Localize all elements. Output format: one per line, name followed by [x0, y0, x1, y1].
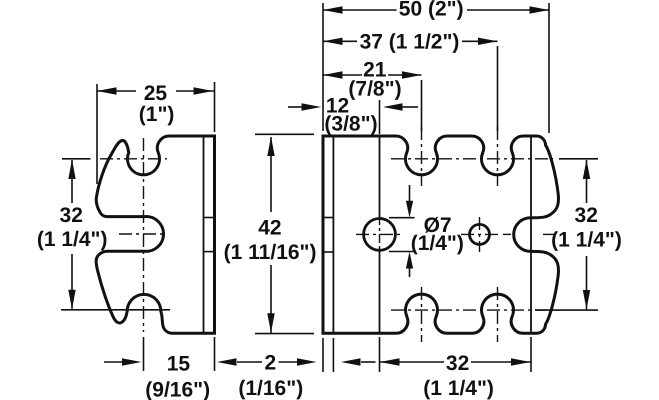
svg-text:37 (1 1/2"): 37 (1 1/2")	[360, 31, 460, 54]
dimension 12 label	[326, 95, 349, 118]
hole dia bottom tangent line	[389, 251, 415, 253]
right notch center line right stub	[543, 233, 554, 235]
dimension 15 left outside arrow	[104, 358, 142, 365]
svg-text:(9/16"): (9/16")	[145, 379, 210, 400]
bottom scallop horizontal center line	[391, 309, 546, 311]
svg-text:(1 1/4"): (1 1/4")	[423, 377, 494, 400]
extension line y=158.8 right (32 dim)	[559, 158, 598, 160]
dimension 12 right outside arrow	[383, 103, 418, 110]
dimension 42 label	[258, 217, 281, 240]
dimension 37 label	[360, 31, 460, 54]
hole 1 (O7)	[364, 219, 396, 251]
extension line y=310.1 right (32 dim)	[535, 309, 598, 311]
right part flange strip tick upper	[323, 217, 333, 219]
extension line x=323 (top)	[322, 3, 324, 131]
svg-text:42: 42	[258, 217, 281, 240]
dimension 15 right outside arrow	[217, 358, 237, 365]
dimension 32-bottom right arrow	[511, 358, 531, 365]
svg-text:(1/4"): (1/4")	[411, 232, 464, 255]
left part back-plate tick lower	[204, 251, 215, 253]
dimension 32-bottom label inches	[423, 377, 494, 400]
hole dia label	[424, 214, 452, 237]
scallop center line vertical 1	[421, 127, 423, 342]
dimension 32-right bottom arrow	[583, 290, 590, 310]
hole dia bottom arrow	[406, 252, 413, 278]
hole 2 horizontal center line	[461, 233, 500, 235]
dimension 42 top arrow	[267, 137, 274, 157]
svg-text:15: 15	[167, 353, 191, 376]
extension line x=323 (bottom)	[322, 338, 324, 372]
hole 1 vertical center line	[379, 216, 381, 253]
right notch center line stub	[503, 233, 514, 235]
dimension 12 left outside arrow	[288, 103, 321, 110]
hole dia top arrow	[406, 185, 413, 218]
extension line x=421.5 (21 dim)	[421, 80, 423, 131]
hole 1 horizontal center line	[356, 233, 402, 235]
hole 2 vertical center line	[479, 217, 481, 252]
dimension 32-left label	[60, 204, 83, 227]
dimension 21 left arrow	[323, 71, 343, 78]
dimension 2 line left	[237, 361, 262, 363]
dimension 25 label inches	[139, 103, 175, 126]
svg-text:(1 1/4"): (1 1/4")	[37, 228, 108, 251]
right part outline (front view of scalloped plate)	[323, 136, 559, 333]
extension line x=97 (25 dim)	[96, 84, 98, 184]
right part bend line (12mm fold)	[379, 136, 381, 333]
dimension 32-bottom label	[446, 352, 469, 375]
dimension 37 right arrow	[478, 38, 498, 45]
extension line x=214.5 (25 dim)	[214, 82, 216, 132]
scallop center line vertical 2	[497, 127, 499, 342]
extension line x=379.5 (bottom)	[379, 337, 381, 372]
dimension 32-bottom left arrow	[380, 358, 400, 365]
svg-text:32: 32	[60, 204, 83, 227]
dimension 2 label inches	[238, 377, 303, 400]
dimension 32-left top arrow	[68, 160, 75, 180]
dimension 50 line	[323, 9, 549, 11]
dimension 25 right arrow	[194, 87, 214, 94]
left part outline (side view of spring clip)	[96, 136, 214, 333]
extension line y=333.6 (42 dim)	[255, 333, 314, 335]
hole dia top tangent line	[389, 217, 415, 219]
dimension 25 left arrow	[97, 87, 117, 94]
svg-text:(1/16"): (1/16")	[238, 377, 303, 400]
extension line y=134 (42 dim)	[255, 133, 314, 135]
extension line x=214.5 (bottom)	[214, 337, 216, 371]
dimension 50 left arrow	[323, 6, 343, 13]
dimension 32-right top arrow	[583, 160, 590, 180]
svg-text:32: 32	[446, 352, 469, 375]
top scallop horizontal center line	[391, 158, 553, 160]
dimension 21 right arrow	[402, 71, 422, 78]
dimension 32-bottom line	[380, 361, 532, 363]
left part middle-finger center line	[119, 233, 166, 235]
dimension 15 label	[167, 353, 191, 376]
dimension 21 label inches	[348, 78, 401, 101]
hole 2	[470, 224, 490, 244]
dimension 37 left arrow	[323, 38, 343, 45]
dimension 2 label	[265, 352, 277, 375]
extension line x=333.4 (bottom)	[332, 338, 334, 372]
dimension 42 line	[270, 137, 272, 333]
dimension 32-right label inches	[551, 229, 622, 252]
right part flange strip tick lower	[323, 251, 333, 253]
dimension 32-right label	[575, 204, 598, 227]
dimension 32-left bottom arrow	[68, 290, 75, 310]
dimension 2 left-pointing arrow	[341, 358, 376, 365]
left part vertical center line	[143, 138, 145, 332]
hole dia label inches	[411, 232, 464, 255]
dimension 15 label inches	[145, 379, 210, 400]
dimension 32-left line	[71, 160, 73, 309]
extension line x=379.5 (12 dim)	[379, 100, 381, 134]
svg-text:(1 11/16"): (1 11/16")	[224, 241, 317, 264]
extension line x=531 (bottom)	[530, 337, 532, 372]
right part flange strip line	[332, 136, 334, 333]
extension line x=143.5 (bottom)	[143, 337, 145, 371]
extension line y=309.8 left (32 dim)	[61, 309, 170, 311]
dimension 50 right arrow	[530, 6, 550, 13]
left part back-plate tick upper	[204, 217, 215, 219]
extension line y=158.8 left (32 dim)	[62, 158, 91, 160]
extension line x=497.5 (37 dim)	[497, 46, 499, 131]
dimension 21 label	[363, 59, 387, 82]
extension line x=549 (top)	[548, 3, 550, 133]
left part top-notch center line	[100, 158, 167, 160]
dimension 21 line	[323, 74, 422, 76]
svg-text:32: 32	[575, 204, 598, 227]
svg-text:(3/8"): (3/8")	[324, 113, 377, 136]
dimension 25 line	[97, 90, 215, 92]
svg-text:50 (2"): 50 (2")	[399, 0, 464, 20]
svg-text:2: 2	[265, 352, 277, 375]
left part back-plate inner line	[203, 136, 205, 333]
svg-text:(1 1/4"): (1 1/4")	[551, 229, 622, 252]
svg-text:(1"): (1")	[139, 103, 175, 126]
dimension 32-left label inches	[37, 228, 108, 251]
dimension 37 line	[323, 40, 498, 42]
dimension 32-right line	[586, 160, 588, 309]
svg-text:(7/8"): (7/8")	[348, 78, 401, 101]
right part bend line (right fold)	[530, 136, 532, 333]
dimension 2 right-pointing arrow	[279, 358, 317, 365]
dimension 25 label	[144, 82, 168, 105]
svg-text:25: 25	[144, 82, 168, 105]
dimension 12 label inches	[324, 113, 377, 136]
dimension 42 bottom arrow	[267, 313, 274, 333]
dimension 50 label	[399, 0, 464, 20]
dimension 42 label inches	[224, 241, 317, 264]
